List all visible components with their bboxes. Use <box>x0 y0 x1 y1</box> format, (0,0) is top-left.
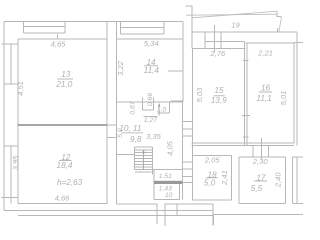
svg-text:19: 19 <box>231 21 240 30</box>
fraction line room14 <box>144 65 158 67</box>
wire right outer wall <box>296 32 298 145</box>
svg-text:21,0: 21,0 <box>55 80 72 89</box>
node room16 top edge <box>245 42 293 44</box>
svg-text:16: 16 <box>261 84 271 93</box>
svg-text:5,01: 5,01 <box>279 91 288 106</box>
wire top-right outer wall <box>192 31 297 33</box>
tick center wall <box>107 125 117 137</box>
svg-text:2,30: 2,30 <box>252 157 269 166</box>
ticks corridor right wall <box>176 122 192 183</box>
right annex rect <box>214 215 303 226</box>
right strip lower box <box>293 157 303 204</box>
fraction line room15 <box>214 95 225 97</box>
svg-text:5,34: 5,34 <box>144 39 159 48</box>
wire corridor-stair link <box>117 153 135 155</box>
wall room15/16 <box>242 41 250 146</box>
svg-text:5,03: 5,03 <box>195 87 204 103</box>
svg-text:1,0: 1,0 <box>157 107 167 114</box>
wire top outer wall <box>4 21 183 23</box>
room14 box <box>117 22 183 103</box>
svg-text:0,66: 0,66 <box>147 93 154 106</box>
svg-text:4,66: 4,66 <box>55 194 71 203</box>
wire room16 right edge <box>293 43 295 144</box>
svg-text:5,5: 5,5 <box>251 184 263 193</box>
duct box below room14 <box>143 98 154 111</box>
annex front line <box>18 214 213 216</box>
porch verticals <box>157 204 177 226</box>
node room15 top edge <box>193 48 246 50</box>
room17 box <box>239 157 286 203</box>
svg-text:13: 13 <box>61 70 71 79</box>
door arrow corridor <box>158 103 161 116</box>
svg-text:2,21: 2,21 <box>257 49 273 58</box>
wall center-right vertical <box>116 22 118 205</box>
svg-text:0,67: 0,67 <box>130 101 137 114</box>
svg-text:2,40: 2,40 <box>274 172 283 189</box>
fraction line room13 <box>57 78 73 80</box>
stub wall room14 right <box>168 71 183 101</box>
balcony 19 left edge <box>186 6 281 49</box>
hatched wall band closet <box>154 181 182 184</box>
dim tick 4,65 <box>57 35 59 40</box>
wall thick divider room12/13 <box>18 124 107 126</box>
svg-text:2,76: 2,76 <box>209 49 226 58</box>
staircase arrow <box>142 149 145 169</box>
svg-text:h=2,63: h=2,63 <box>57 178 83 187</box>
svg-text:3,95: 3,95 <box>11 155 20 171</box>
svg-text:1,27: 1,27 <box>144 117 157 124</box>
svg-text:4,05: 4,05 <box>165 140 174 156</box>
window left wall room12 <box>2 146 18 204</box>
wire right wall tick <box>278 28 303 43</box>
window band room15 top <box>205 25 245 53</box>
svg-text:13,9: 13,9 <box>211 96 227 105</box>
svg-text:2,41: 2,41 <box>220 170 229 186</box>
wall center-left vertical <box>106 22 108 205</box>
step corridor top <box>157 102 169 113</box>
window W2 top wall room14 <box>121 22 165 35</box>
bottom outer wall line <box>4 209 213 211</box>
svg-text:5,0: 5,0 <box>204 179 216 188</box>
room18 box <box>192 156 232 201</box>
svg-text:4,51: 4,51 <box>16 81 25 96</box>
staircase box <box>135 147 153 175</box>
svg-text:3,22: 3,22 <box>116 60 125 76</box>
wire annex step right <box>212 204 214 226</box>
dim line 1,27 <box>144 115 158 117</box>
svg-text:18,4: 18,4 <box>57 161 73 170</box>
wall room15 bottom <box>192 143 295 146</box>
svg-text:10: 10 <box>165 192 173 199</box>
bottom inner wall line <box>18 203 213 206</box>
svg-text:4,65: 4,65 <box>51 40 67 49</box>
svg-text:15: 15 <box>214 86 224 95</box>
svg-text:5,0: 5,0 <box>117 128 124 138</box>
staircase treads <box>135 150 153 167</box>
fraction line room17 <box>254 180 267 182</box>
balcony 19 slanted rails <box>186 11 282 32</box>
svg-text:1,51: 1,51 <box>159 173 172 180</box>
wire left outer wall <box>3 22 5 211</box>
fraction line room16 <box>259 91 272 93</box>
svg-text:2,05: 2,05 <box>204 156 221 165</box>
svg-text:9,8: 9,8 <box>130 135 142 144</box>
wire left inner wall <box>17 39 19 204</box>
fraction line room18 <box>206 177 218 179</box>
closet box <box>152 170 182 200</box>
wall corridor right v1 <box>181 102 183 200</box>
window W1 top wall room13 <box>24 22 65 34</box>
room13 top edge <box>18 38 107 40</box>
door verticals room17 corridor <box>253 138 269 160</box>
window left wall room13 <box>2 44 18 84</box>
fraction line rooms10-11 <box>122 132 143 134</box>
fraction line room12 <box>59 160 72 162</box>
svg-text:11,1: 11,1 <box>256 94 271 103</box>
wall corridor right v2 <box>191 49 193 201</box>
svg-text:3,35: 3,35 <box>146 132 162 141</box>
svg-text:11,4: 11,4 <box>144 66 160 75</box>
